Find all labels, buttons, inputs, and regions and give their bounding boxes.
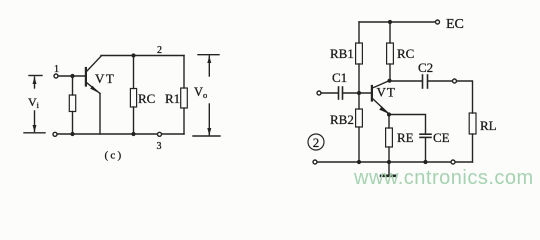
junction — [70, 74, 74, 78]
Vo dimension arrow — [193, 55, 220, 136]
left bottom terminal — [53, 132, 57, 136]
resistor RL — [469, 113, 476, 162]
transistor VT (right) — [372, 81, 389, 114]
bottom rail wire — [317, 161, 473, 163]
junction node 2 — [131, 53, 135, 57]
transistor VT (left) — [86, 56, 101, 93]
top rail wire — [359, 21, 437, 23]
svg-text:RC: RC — [138, 91, 155, 106]
resistor RE — [386, 115, 393, 163]
input terminal — [317, 91, 321, 95]
svg-text:R1: R1 — [165, 91, 180, 106]
resistor R1 — [181, 56, 188, 135]
svg-text:2: 2 — [157, 45, 162, 56]
EC terminal — [436, 20, 440, 24]
resistor RC (right) — [387, 22, 394, 81]
collector node junction — [387, 79, 391, 83]
top rail wire — [101, 55, 184, 57]
wire output to RL corner — [457, 81, 473, 113]
node 1 terminal — [54, 74, 58, 78]
junction dots bottom rail — [357, 160, 361, 164]
junction dots bottom — [70, 132, 74, 136]
junction base node — [357, 91, 361, 95]
emitter wire down — [99, 94, 101, 135]
svg-text:VT: VT — [377, 85, 396, 100]
svg-text:3: 3 — [157, 141, 162, 152]
resistor RB1 — [356, 22, 363, 93]
svg-text:EC: EC — [446, 17, 464, 32]
wire C2 to output — [429, 80, 453, 82]
wire collector to C2 — [390, 80, 422, 82]
capacitor C1 — [339, 87, 343, 99]
Vi dimension arrow — [24, 76, 45, 133]
output terminal top — [453, 79, 457, 83]
ground — [381, 162, 396, 176]
capacitor C2 — [423, 75, 428, 88]
svg-text:RB2: RB2 — [330, 112, 354, 127]
junction RC top — [388, 20, 392, 24]
node 3 terminal — [158, 132, 162, 136]
svg-text:C1: C1 — [332, 70, 347, 85]
wire emitter to CE — [389, 115, 426, 134]
svg-text:VT: VT — [95, 71, 115, 86]
svg-text:www.cntronics.com: www.cntronics.com — [353, 167, 534, 189]
capacitor CE — [420, 134, 431, 162]
label circled 2 — [308, 134, 324, 150]
svg-text:RC: RC — [397, 46, 414, 61]
wire input to C1 — [321, 92, 338, 94]
svg-text:RE: RE — [397, 130, 414, 145]
bias resistor — [69, 76, 75, 134]
svg-text:(c): (c) — [105, 150, 124, 162]
bottom rail wire — [57, 133, 184, 135]
wire node1 to base — [58, 75, 85, 77]
svg-text:C2: C2 — [418, 60, 433, 75]
output terminal bottom — [451, 160, 455, 164]
resistor RC (left) — [130, 56, 136, 135]
svg-text:CE: CE — [433, 130, 450, 145]
emitter node junction — [387, 112, 391, 116]
svg-text:1: 1 — [54, 64, 59, 75]
svg-text:RB1: RB1 — [330, 46, 354, 61]
resistor RB2 — [356, 93, 363, 162]
svg-text:2: 2 — [313, 135, 320, 150]
bottom left terminal — [313, 160, 317, 164]
svg-text:RL: RL — [480, 118, 497, 133]
wire C1 to base — [344, 92, 372, 94]
